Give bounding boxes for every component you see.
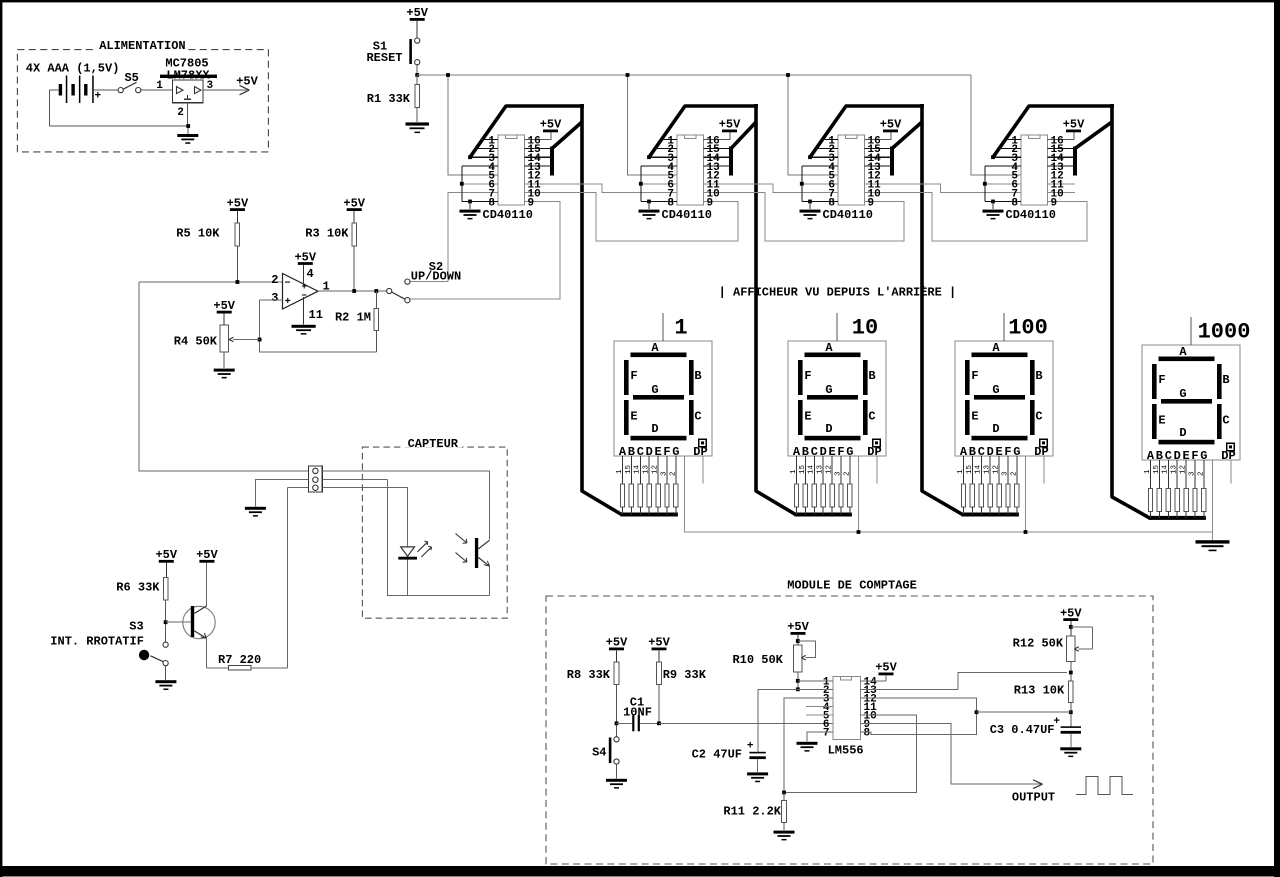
wire counter1 pin9 to S2 down contact [410, 201, 560, 299]
svg-text:R13 10K: R13 10K [1014, 684, 1065, 698]
junction counter 4 pin8 ground [991, 200, 995, 204]
svg-text:R8 33K: R8 33K [567, 668, 611, 682]
ground power supply [177, 134, 198, 144]
svg-text:3: 3 [271, 291, 278, 305]
wire pin1 stub [798, 680, 833, 682]
svg-text:| AFFICHEUR VU DEPUIS L'ARRIÈR: | AFFICHEUR VU DEPUIS L'ARRIÈRE | [719, 285, 957, 300]
svg-text:4X AAA (1,5V): 4X AAA (1,5V) [26, 62, 120, 76]
svg-text:2: 2 [1010, 471, 1018, 476]
ground R4 [214, 369, 235, 379]
ground LM556 pin7 [797, 742, 818, 752]
svg-text:15: 15 [1153, 464, 1161, 474]
label CD40110 counter 2 [662, 208, 712, 222]
wire display 1 common [684, 456, 686, 532]
wire borrow chain counter 2 pin11 to counter 3 pin7 [704, 184, 839, 193]
label digit weight 1000 [1191, 317, 1250, 345]
svg-text:3: 3 [1001, 471, 1009, 476]
label 4X AAA (1,5V) [26, 62, 120, 76]
+5V R5 [227, 196, 249, 223]
svg-text:R1 33K: R1 33K [367, 92, 411, 106]
op-amp U2 LM324 [271, 267, 329, 322]
svg-text:15: 15 [799, 464, 807, 474]
wire S5 to regulator pin 1 [141, 89, 173, 91]
svg-text:12: 12 [1180, 465, 1188, 474]
wire display 4 DP stub [1230, 460, 1232, 484]
svg-text:B: B [1035, 369, 1042, 383]
bus segment-bundle counter 1 [470, 104, 678, 517]
switch S2 UP/DOWN [387, 260, 462, 303]
resistor network display 2 segment resistors [794, 456, 852, 515]
+5V R10 [787, 620, 809, 645]
svg-text:G: G [825, 383, 832, 397]
resistor R1 33K [367, 75, 420, 122]
+5V R8 [606, 636, 628, 662]
wire battery minus to ground rail [50, 90, 189, 126]
wire regulator pin 2 to ground [187, 103, 190, 134]
resistor R5 10K [176, 223, 239, 282]
wire reset branch to counter 1 pin 5 [448, 75, 498, 175]
+5V R6 [155, 548, 177, 578]
wire regulator output [203, 89, 247, 91]
svg-text:R2 1M: R2 1M [335, 311, 371, 325]
timer IC U3 LM556 body [823, 677, 877, 758]
capacitor C3 0.47UF [990, 716, 1081, 747]
ground S4 [606, 779, 627, 789]
svg-text:R5 10K: R5 10K [176, 227, 220, 241]
junction common display2 [857, 530, 861, 534]
svg-text:G: G [651, 383, 658, 397]
labels display 3 pin numbers [957, 464, 1018, 476]
label afficheur note [719, 285, 957, 300]
svg-text:S4: S4 [592, 746, 606, 760]
wire reset rail [417, 74, 971, 76]
wire common cathode rail [685, 531, 1213, 533]
junction counter 2 pin3 bus [647, 155, 651, 159]
junction R5 pin2 [236, 280, 240, 284]
wire connector1 to phototransistor collector [322, 471, 489, 540]
capacitor C2 47UF [692, 741, 766, 773]
svg-text:1: 1 [1144, 469, 1152, 474]
+5V output arrow [236, 74, 258, 95]
svg-text:1: 1 [616, 469, 624, 474]
svg-text:1: 1 [674, 316, 687, 341]
wire pin3 to output node [784, 698, 833, 793]
wire reset branch to counter 2 pin 5 [628, 75, 678, 175]
svg-text:ALIMENTATION: ALIMENTATION [99, 39, 185, 53]
svg-text:B: B [694, 369, 701, 383]
+5V rail S1 [406, 6, 428, 38]
svg-text:13: 13 [817, 464, 825, 474]
resistor R9 33K [657, 662, 707, 723]
+5V counter 1 [540, 118, 562, 133]
wire S4 to ground [616, 764, 618, 778]
svg-text:+: + [747, 741, 754, 753]
wire display 3 DP stub [1043, 456, 1045, 484]
wire pin7 to ground [807, 732, 833, 742]
svg-text:CD40110: CD40110 [483, 208, 533, 222]
junction R3 output [352, 289, 356, 293]
voltage regulator U5 MC7805 [156, 80, 213, 119]
svg-text:14: 14 [975, 464, 983, 474]
svg-text:3: 3 [660, 471, 668, 476]
wire carry chain counter 2 pin10 to counter 3 pin9 [704, 193, 905, 241]
svg-text:D: D [992, 422, 999, 436]
bus segment-bundle counter 3 [810, 104, 1019, 517]
wire counter4 pin10 stub [1048, 192, 1076, 194]
svg-text:10: 10 [852, 316, 878, 341]
svg-text:14: 14 [1162, 464, 1170, 474]
wire pin2 to C2 [758, 689, 833, 752]
ground display common [1196, 532, 1230, 551]
wire S1 to reset node [416, 65, 418, 75]
svg-text:E: E [1158, 414, 1165, 428]
svg-text:R12 50K: R12 50K [1013, 637, 1064, 651]
timer module box MODULE DE COMPTAGE [546, 579, 1153, 865]
wire battery plus to S5 [94, 89, 118, 91]
svg-text:E: E [804, 410, 811, 424]
svg-text:D: D [1179, 426, 1186, 440]
svg-text:C: C [868, 410, 875, 424]
switch S1 pushbutton [366, 38, 419, 65]
+5V LM556 pin14 [861, 661, 898, 681]
wire carry chain counter 1 pin10 to counter 2 pin9 [525, 193, 739, 241]
svg-text:−: − [285, 279, 291, 290]
battery BT1 4x AAA [59, 76, 102, 104]
counter IC U2 CD40110 body [641, 132, 731, 209]
svg-text:13: 13 [1171, 464, 1179, 474]
label digit weight 100 [1004, 313, 1048, 341]
switch S4 pushbutton [592, 737, 619, 764]
svg-text:1: 1 [156, 80, 163, 92]
ground op-amp pin11 [292, 297, 316, 335]
svg-text:UP/DOWN: UP/DOWN [411, 270, 461, 284]
junction counter 3 pin6 [800, 182, 804, 186]
wire borrow chain counter 3 pin11 to counter 4 pin7 [865, 184, 1022, 193]
junction counter 4 pin3 bus [991, 155, 995, 159]
svg-text:15: 15 [966, 464, 974, 474]
wire base [166, 621, 191, 623]
junction pin12 pin8 node [975, 710, 979, 714]
svg-text:S5: S5 [124, 71, 138, 85]
svg-text:2: 2 [177, 107, 184, 119]
sensor box CAPTEUR [362, 437, 507, 618]
+5V counter 3 [880, 118, 902, 133]
labels display 4 pin numbers [1144, 464, 1205, 476]
svg-text:INT. RROTATIF: INT. RROTATIF [50, 635, 144, 649]
svg-text:14: 14 [634, 464, 642, 474]
counter IC U4 CD40110 body [985, 132, 1075, 209]
LED D1 infrared [398, 541, 431, 595]
junction reset branch 3 [786, 73, 790, 77]
ground S3 [155, 680, 176, 690]
wire display 1 DP stub [702, 456, 704, 484]
svg-text:R7 220: R7 220 [218, 653, 261, 667]
svg-text:CD40110: CD40110 [1006, 208, 1056, 222]
junction R12 bottom [1069, 671, 1073, 675]
svg-text:D: D [825, 422, 832, 436]
display DIS3 7-segment x100 [955, 341, 1053, 459]
ground counter 1 [460, 201, 481, 219]
svg-text:S3: S3 [129, 620, 143, 634]
svg-text:+: + [285, 297, 291, 308]
svg-text:12: 12 [826, 465, 834, 474]
junction counter 2 pin6 [639, 182, 643, 186]
wire sensor signal line [139, 282, 309, 471]
svg-text:C: C [694, 410, 701, 424]
svg-text:C: C [1222, 414, 1229, 428]
display DIS2 7-segment x10 [788, 341, 886, 459]
svg-text:R9 33K: R9 33K [663, 668, 707, 682]
svg-text:G: G [1179, 387, 1186, 401]
junction R8 C1 [615, 721, 619, 725]
svg-text:C2 47UF: C2 47UF [692, 748, 742, 762]
junction R12 top loop [1069, 625, 1073, 629]
wire emitter to R7 [206, 638, 228, 668]
display DIS1 7-segment x1 [614, 341, 712, 459]
svg-text:2: 2 [1197, 471, 1205, 476]
resistor R13 10K [1014, 681, 1073, 726]
wire counter4 pin11 stub [1048, 183, 1076, 185]
label digit weight 10 [837, 313, 878, 341]
wire R13 bottom to pin12 node [977, 711, 1071, 713]
junction R9 C1 [657, 721, 661, 725]
+5V R3 [343, 196, 365, 223]
potentiometer R4 50K [174, 325, 260, 368]
svg-text:13: 13 [643, 464, 651, 474]
ground R1 [406, 122, 430, 133]
ground counter 2 [639, 201, 660, 219]
junction base node [164, 620, 168, 624]
svg-text:2: 2 [843, 471, 851, 476]
svg-text:G: G [992, 383, 999, 397]
bus segment-bundle counter 4 [993, 104, 1206, 520]
svg-text:E: E [971, 410, 978, 424]
svg-text:CAPTEUR: CAPTEUR [408, 437, 459, 451]
labels display 2 pin numbers [790, 464, 851, 476]
junction counter 1 pin8 ground [468, 200, 472, 204]
wire pin9 to OUTPUT [861, 723, 1042, 784]
svg-text:10NF: 10NF [623, 706, 652, 720]
junction counter 1 pin3 bus [468, 155, 472, 159]
ground counter 4 [983, 201, 1004, 219]
svg-text:3: 3 [1188, 471, 1196, 476]
resistor R11 2.2K [723, 793, 786, 831]
svg-text:F: F [971, 369, 978, 383]
resistor R8 33K [567, 662, 619, 737]
counter IC U1 CD40110 body [462, 132, 552, 209]
svg-text:C3 0.47UF: C3 0.47UF [990, 723, 1055, 737]
svg-text:C: C [1035, 410, 1042, 424]
wire display 2 common [858, 456, 860, 532]
label MC7805 [165, 57, 208, 71]
wire feedback to pin3 [260, 300, 377, 352]
svg-text:LM556: LM556 [828, 744, 864, 758]
display DIS4 7-segment x1000 [1142, 345, 1240, 463]
wire pin10 to output node [786, 715, 917, 793]
svg-text:B: B [868, 369, 875, 383]
wire op-amp output [318, 290, 387, 292]
wire reset branch to counter 4 pin 5 [971, 75, 1021, 175]
svg-text:12: 12 [993, 465, 1001, 474]
svg-text:R4 50K: R4 50K [174, 335, 218, 349]
power supply box ALIMENTATION [17, 39, 268, 152]
junction R4 wiper feedback [258, 338, 262, 342]
junction R10 pin2 [796, 687, 800, 691]
resistor network display 4 segment resistors [1148, 460, 1206, 518]
svg-text:8: 8 [864, 728, 871, 740]
capacitor C1 10NF [617, 696, 660, 732]
svg-text:14: 14 [808, 464, 816, 474]
svg-text:F: F [1158, 373, 1165, 387]
wire counter1 pin7 to S2 up contact [410, 193, 498, 282]
svg-text:A: A [825, 341, 833, 355]
ground R11 [774, 831, 795, 841]
+5V op-amp pin4 [294, 250, 316, 286]
resistor network display 1 segment resistors [620, 456, 678, 515]
svg-text:A: A [992, 341, 1000, 355]
+5V counter 2 [719, 118, 741, 133]
wire connector3 to LED anode [322, 488, 407, 547]
wire display 4 common [1212, 460, 1214, 532]
resistor R2 1M [335, 291, 379, 352]
phototransistor Q2 [456, 534, 490, 596]
wire carry chain counter 3 pin10 to counter 4 pin9 [865, 193, 1088, 241]
svg-text:RESET: RESET [366, 51, 402, 65]
svg-text:A: A [1179, 345, 1187, 359]
svg-text:CD40110: CD40110 [662, 208, 712, 222]
svg-text:+5V: +5V [236, 74, 258, 88]
svg-text:R10 50K: R10 50K [732, 653, 783, 667]
label CD40110 counter 3 [823, 208, 873, 222]
svg-text:R6 33K: R6 33K [116, 581, 160, 595]
junction output node [782, 791, 786, 795]
wire borrow chain counter 1 pin11 to counter 2 pin7 [525, 184, 678, 193]
junction counter 4 pin6 [983, 182, 987, 186]
wire connector3 to R7 line [288, 488, 309, 668]
svg-text:F: F [630, 369, 637, 383]
svg-text:DP: DP [693, 445, 707, 459]
svg-text:100: 100 [1008, 316, 1048, 341]
wire pin5 stub [806, 714, 833, 716]
svg-text:DP: DP [867, 445, 881, 459]
wire inverting input [139, 281, 283, 283]
ground sensor return [245, 507, 266, 517]
svg-text:F: F [804, 369, 811, 383]
label CD40110 counter 4 [1006, 208, 1056, 222]
junction R13 bottom [1069, 710, 1073, 714]
svg-text:3: 3 [834, 471, 842, 476]
svg-text:DP: DP [1221, 449, 1235, 463]
junction reset node [415, 73, 419, 77]
label LM78XX crossed out [160, 69, 217, 83]
label CD40110 counter 1 [483, 208, 533, 222]
svg-text:R11 2.2K: R11 2.2K [723, 805, 781, 819]
svg-text:13: 13 [984, 464, 992, 474]
wire S3 to ground [165, 666, 167, 680]
svg-text:12: 12 [652, 465, 660, 474]
junction R10 pin1 [796, 679, 800, 683]
svg-text:−: − [302, 291, 307, 301]
connector J1 [309, 466, 323, 492]
wire pin8 to R13 bottom node [861, 712, 977, 734]
junction regulator ground [186, 124, 190, 128]
+5V R9 [648, 636, 670, 662]
wire connector2 to ground [255, 480, 308, 507]
+5V collector [196, 548, 218, 606]
transistor Q1 NPN [183, 606, 215, 639]
+5V counter 4 [1063, 118, 1085, 133]
ground counter 3 [800, 201, 821, 219]
svg-text:2: 2 [669, 471, 677, 476]
svg-text:B: B [1222, 373, 1229, 387]
switch S5 [118, 71, 141, 93]
labels display 1 pin numbers [616, 464, 677, 476]
wire R7 to sensor [251, 667, 288, 669]
junction counter 2 pin8 ground [647, 200, 651, 204]
bus segment-bundle counter 2 [649, 104, 852, 517]
wire C1 to pin6 [659, 722, 833, 724]
svg-text:1: 1 [957, 469, 965, 474]
junction counter 3 pin8 ground [808, 200, 812, 204]
potentiometer R10 50K [732, 641, 815, 689]
resistor R3 10K [305, 223, 356, 291]
svg-text:2: 2 [271, 273, 278, 287]
counter IC U3 CD40110 body [802, 132, 892, 209]
svg-text:DP: DP [1034, 445, 1048, 459]
resistor R7 220 [218, 653, 261, 670]
svg-text:A: A [651, 341, 659, 355]
junction counter 1 pin6 [460, 182, 464, 186]
wire reset branch to counter 3 pin 5 [788, 75, 838, 175]
ground C2 [747, 772, 768, 782]
potentiometer R12 50K [1013, 627, 1093, 681]
svg-text:+: + [95, 91, 102, 103]
wire display 3 common [1025, 456, 1027, 532]
junction R2 output [374, 289, 378, 293]
square wave symbol [1076, 777, 1133, 795]
svg-text:CD40110: CD40110 [823, 208, 873, 222]
junction common display3 [1024, 530, 1028, 534]
wire display 2 DP stub [876, 456, 878, 484]
resistor R6 33K [116, 578, 168, 642]
svg-text:MODULE DE COMPTAGE: MODULE DE COMPTAGE [787, 579, 917, 593]
+5V R4 [213, 299, 235, 325]
+5V R12 [1060, 606, 1082, 636]
label digit weight 1 [663, 313, 688, 341]
junction reset branch 2 [626, 73, 630, 77]
svg-text:OUTPUT: OUTPUT [1012, 791, 1055, 805]
wire pin13 to R12 bottom [861, 673, 1068, 690]
svg-text:11: 11 [309, 308, 323, 322]
wire pin12 to R13 bottom node [861, 698, 977, 712]
svg-text:15: 15 [625, 464, 633, 474]
junction counter 3 pin3 bus [808, 155, 812, 159]
svg-text:1: 1 [790, 469, 798, 474]
wire connector2 to emitter/cathode return [322, 480, 489, 596]
ground C3 [1060, 747, 1081, 757]
svg-text:4: 4 [307, 267, 314, 281]
resistor network display 3 segment resistors [961, 456, 1019, 515]
junction reset branch 1 [446, 73, 450, 77]
junction R10 top loop [796, 639, 800, 643]
svg-text:1000: 1000 [1198, 320, 1251, 345]
svg-text:7: 7 [823, 728, 830, 740]
switch S3 rotary [50, 620, 168, 666]
svg-text:D: D [651, 422, 658, 436]
svg-text:E: E [630, 410, 637, 424]
OUTPUT arrow [1012, 780, 1055, 805]
wire pin4 stub [806, 705, 833, 707]
